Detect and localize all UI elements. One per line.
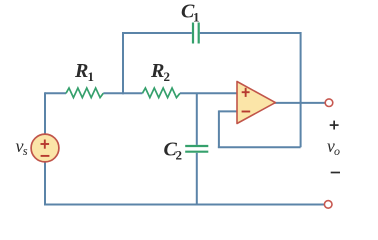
svg-text:R: R — [74, 60, 88, 82]
svg-text:o: o — [334, 144, 340, 158]
svg-text:s: s — [23, 144, 28, 158]
svg-text:1: 1 — [193, 10, 200, 25]
svg-text:2: 2 — [176, 148, 183, 163]
svg-text:2: 2 — [164, 69, 171, 84]
svg-text:1: 1 — [88, 69, 95, 84]
svg-text:R: R — [150, 60, 164, 82]
